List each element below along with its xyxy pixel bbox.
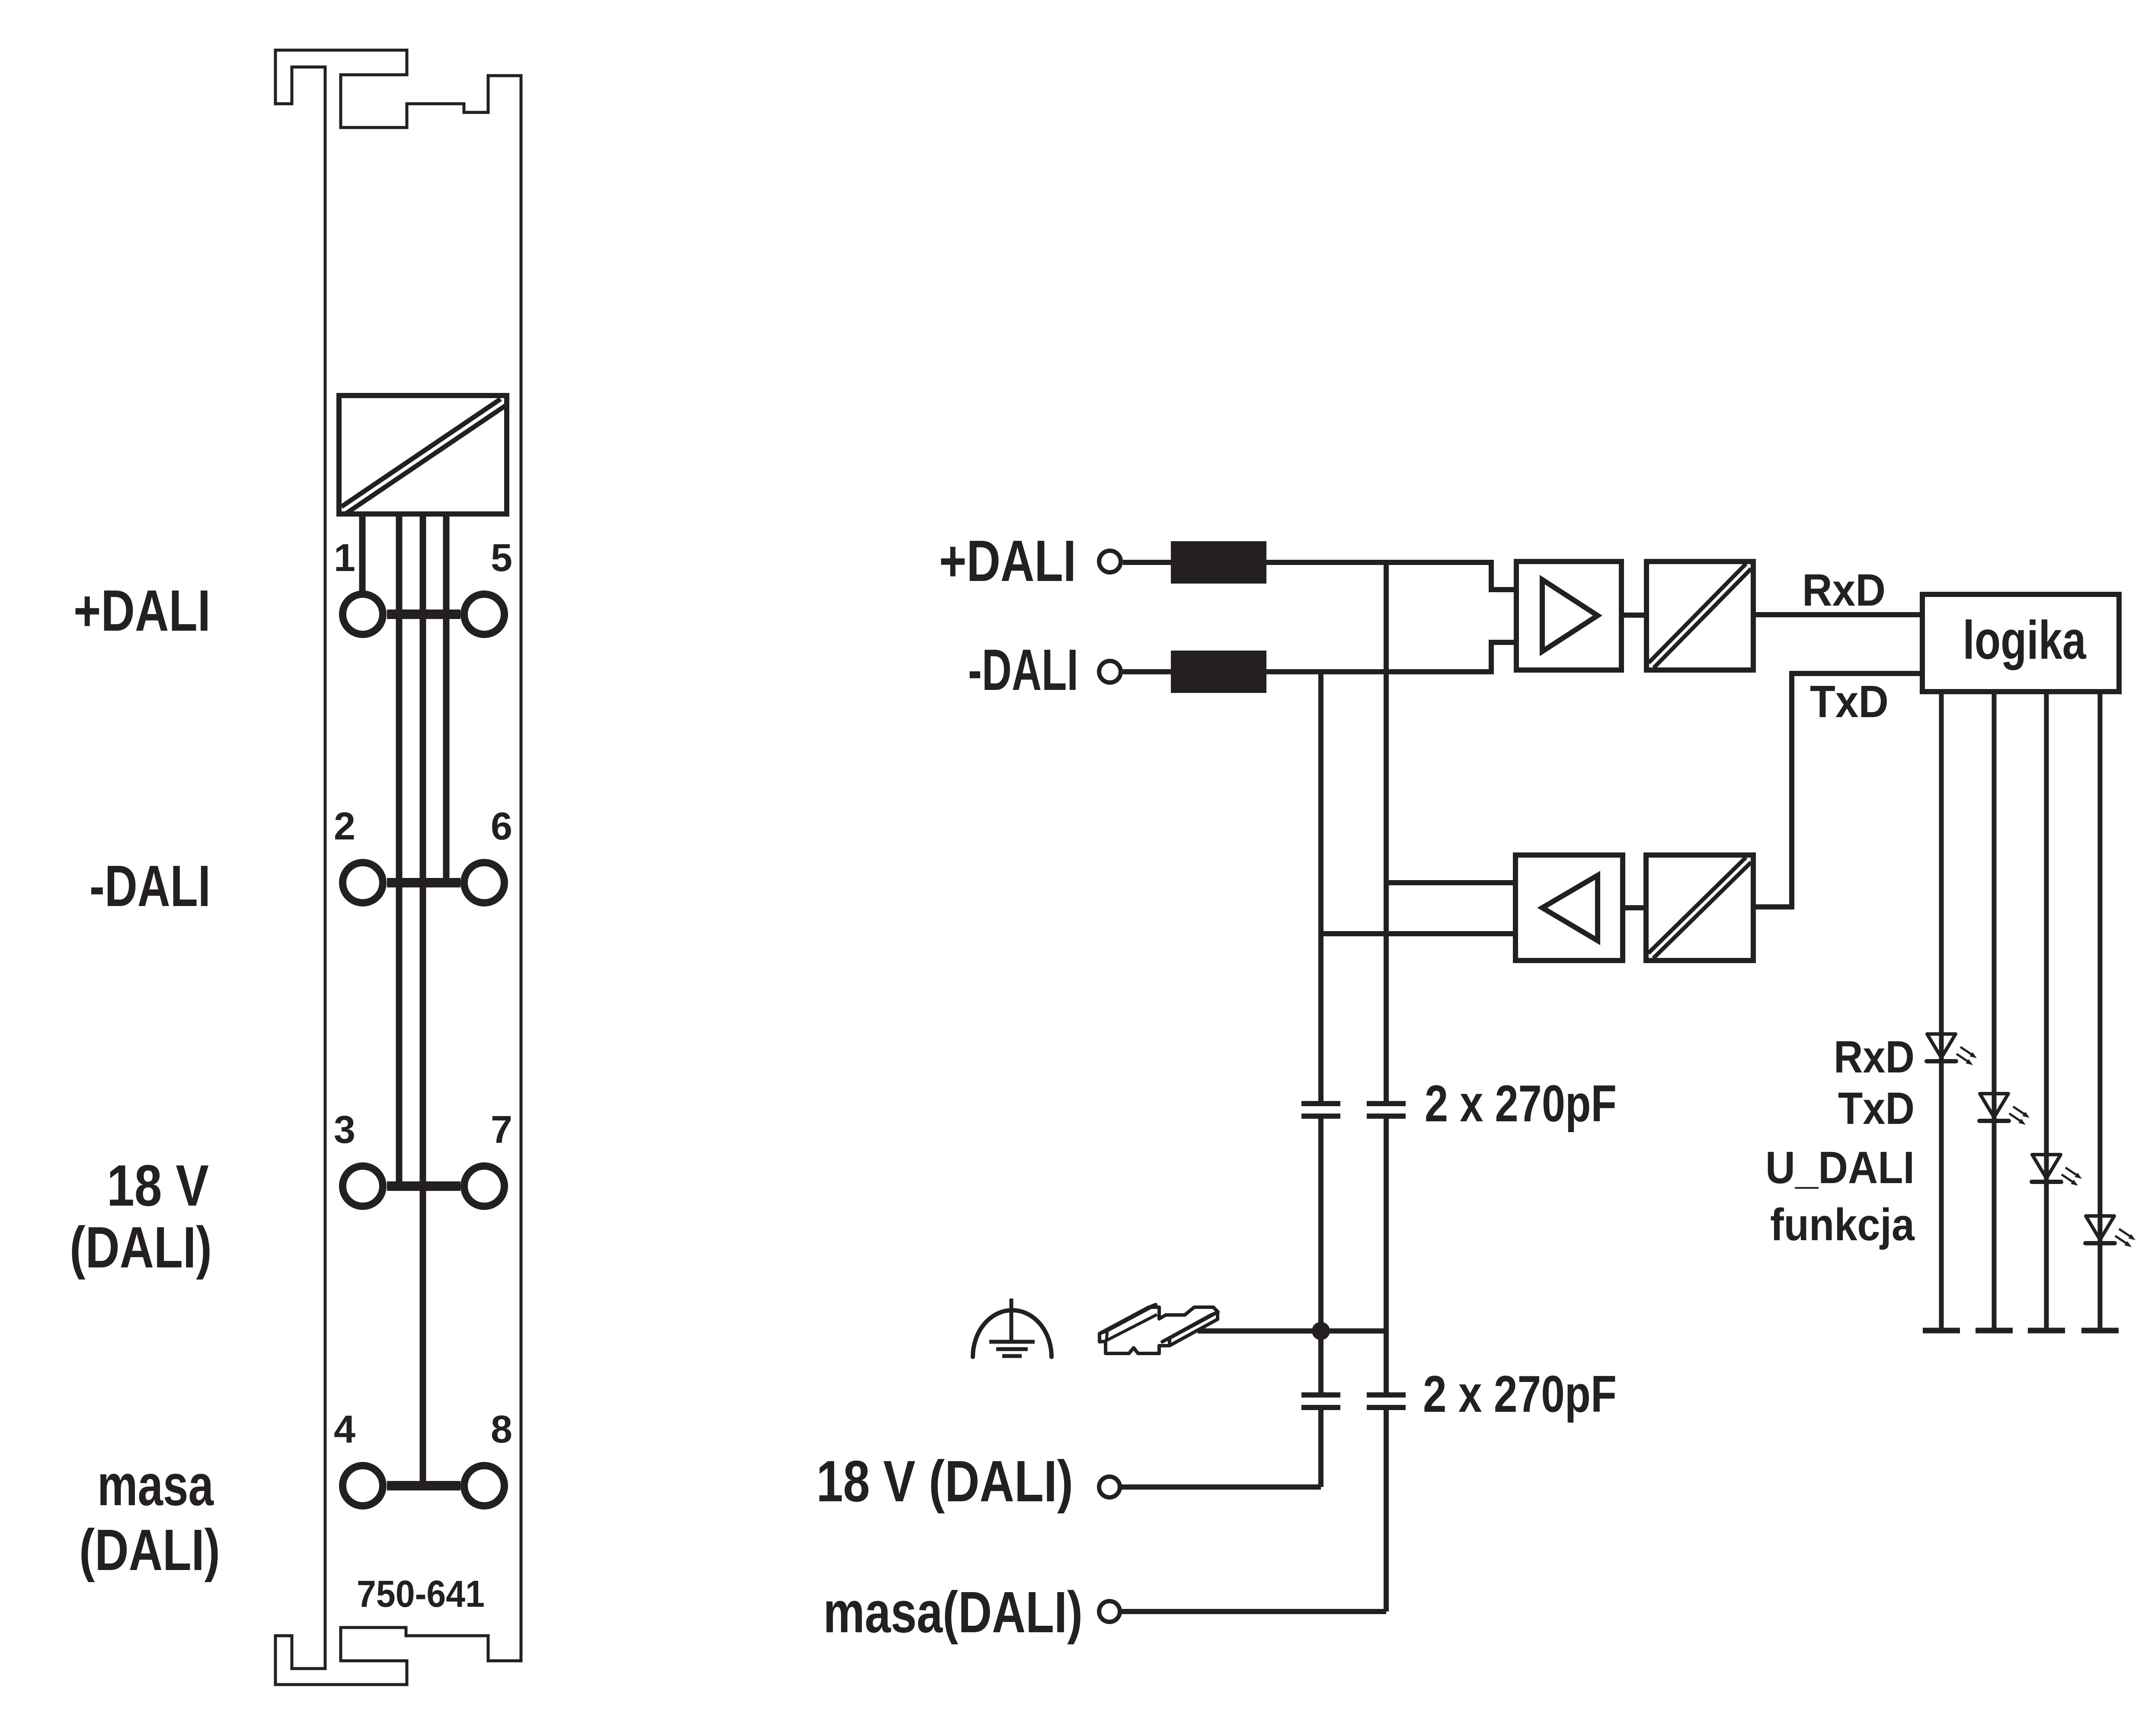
svg-text:+DALI: +DALI bbox=[74, 578, 211, 643]
svg-text:1: 1 bbox=[334, 536, 355, 580]
svg-text:2: 2 bbox=[334, 805, 355, 848]
svg-text:7: 7 bbox=[491, 1108, 512, 1152]
svg-text:750-641: 750-641 bbox=[357, 1573, 485, 1615]
svg-text:RxD: RxD bbox=[1834, 1032, 1915, 1082]
svg-text:RxD: RxD bbox=[1802, 565, 1886, 616]
svg-text:8: 8 bbox=[491, 1408, 512, 1451]
svg-text:4: 4 bbox=[334, 1408, 355, 1451]
svg-text:5: 5 bbox=[491, 536, 512, 580]
svg-text:3: 3 bbox=[334, 1108, 355, 1152]
svg-text:masa(DALI): masa(DALI) bbox=[823, 1580, 1083, 1645]
svg-text:funkcja: funkcja bbox=[1770, 1200, 1915, 1250]
svg-text:TxD: TxD bbox=[1810, 677, 1889, 727]
svg-text:U_DALI: U_DALI bbox=[1765, 1142, 1915, 1193]
svg-text:6: 6 bbox=[491, 805, 512, 848]
svg-text:masa: masa bbox=[97, 1452, 214, 1518]
svg-text:-DALI: -DALI bbox=[90, 853, 211, 919]
svg-text:2 x 270pF: 2 x 270pF bbox=[1425, 1075, 1617, 1133]
svg-text:+DALI: +DALI bbox=[939, 528, 1076, 594]
svg-text:2 x 270pF: 2 x 270pF bbox=[1423, 1365, 1617, 1423]
svg-text:(DALI): (DALI) bbox=[70, 1215, 212, 1280]
svg-text:18 V (DALI): 18 V (DALI) bbox=[816, 1449, 1073, 1514]
svg-text:logika: logika bbox=[1963, 610, 2087, 670]
svg-text:(DALI): (DALI) bbox=[79, 1517, 220, 1583]
svg-text:TxD: TxD bbox=[1838, 1083, 1915, 1134]
svg-text:18 V: 18 V bbox=[107, 1153, 209, 1218]
svg-text:-DALI: -DALI bbox=[968, 637, 1078, 702]
